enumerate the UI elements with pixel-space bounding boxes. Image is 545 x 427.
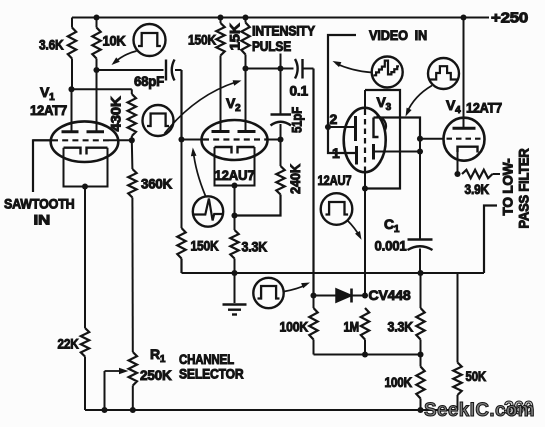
- wire V2 cathode down: [234, 186, 236, 216]
- V2 cathode left bracket: [215, 147, 232, 154]
- wire bottom rail: [85, 409, 458, 411]
- wire +250 supply rail: [72, 17, 464, 19]
- resistor 240K: [280, 140, 282, 167]
- svg-text:VIDEO IN: VIDEO IN: [369, 27, 427, 43]
- arrow from pulse icon to V3 grid wire: [348, 221, 360, 237]
- capacitor 51pF: [271, 113, 292, 115]
- V3 cathode top lead: [374, 118, 421, 139]
- waveform icon pulse bottom: [253, 278, 283, 308]
- svg-text:PASS FILTER: PASS FILTER: [516, 148, 532, 228]
- V2 plate right bar: [238, 130, 256, 133]
- svg-text:V2: V2: [226, 95, 241, 114]
- svg-text:PULSE: PULSE: [252, 38, 291, 54]
- V4 grid dashed: [447, 138, 482, 140]
- V4 cathode bracket: [458, 147, 478, 153]
- op-amp (vacuum tube) V4 12AT7 envelope: [444, 118, 485, 161]
- capacitor 68pF: [165, 60, 167, 81]
- waveform icon staircase video: [372, 57, 403, 88]
- svg-text:INTENSITY: INTENSITY: [252, 23, 316, 39]
- svg-text:150K: 150K: [191, 238, 219, 254]
- resistor 150K lower: [177, 228, 185, 259]
- wire video in lead: [328, 35, 356, 127]
- node 10K-bottom: [93, 67, 99, 73]
- resistor 150K plate load: [220, 18, 222, 24]
- wire sawtooth input lead: [33, 140, 51, 192]
- node pot-bottom: [130, 407, 136, 413]
- waveform icon pulse top-left: [134, 24, 166, 56]
- V3 pin2 lead: [328, 126, 354, 128]
- V3 plate bar bottom-right: [372, 144, 375, 160]
- wire 360K to pot: [131, 198, 133, 353]
- wire between right nodes: [419, 139, 421, 152]
- node V2 grid right: [277, 136, 283, 142]
- node intensity/0.1-cap: [277, 65, 283, 71]
- node pin2: [325, 124, 331, 130]
- V3 left box to lower plate: [328, 127, 355, 153]
- node 3.3K bottom: [417, 351, 423, 357]
- wire 3.6K-bottom to 430K top: [72, 88, 132, 90]
- node V2 cathode / 240K: [231, 212, 237, 218]
- svg-text:100K: 100K: [385, 374, 413, 390]
- svg-text:3.6K: 3.6K: [39, 37, 64, 53]
- V3 cathode top-right bar: [374, 118, 379, 138]
- arrow from spike icon to V2 grid node: [193, 151, 205, 197]
- resistor 50K: [457, 273, 459, 363]
- svg-text:1: 1: [332, 145, 340, 161]
- resistor 1M: [361, 308, 369, 340]
- potentiometer R1 250K: [129, 352, 137, 386]
- waveform icon pulse near C1: [321, 193, 353, 225]
- V1 cathode right bracket: [87, 148, 108, 155]
- svg-text:100K: 100K: [280, 319, 309, 335]
- resistor 100K bottom: [420, 355, 422, 367]
- arrow from bottom pulse icon to diode node: [284, 285, 307, 292]
- waveform icon staircase 2: [428, 58, 459, 89]
- waveform icon pulse mid-left: [143, 105, 174, 136]
- svg-text:SeekIC.com: SeekIC.com: [424, 400, 535, 421]
- resistor 3.6K: [71, 18, 73, 28]
- arrow from mid-left pulse icon to 15K bottom wire: [165, 82, 237, 134]
- svg-text:250K: 250K: [140, 367, 172, 383]
- op-amp (vacuum tube) V3 12AU7 envelope: [344, 108, 386, 172]
- node 100K-bottom-rail: [417, 407, 423, 413]
- V1 cathode box: [64, 148, 108, 187]
- wire V2 grid node down to 150K: [181, 140, 183, 229]
- V4 plate bar: [453, 127, 476, 130]
- resistor 22K: [81, 328, 89, 357]
- wire diode anode: [314, 295, 337, 297]
- svg-text:3.3K: 3.3K: [242, 239, 268, 255]
- resistor 360K: [131, 140, 134, 169]
- V2 plate left bar: [212, 130, 230, 133]
- svg-text:51pF: 51pF: [289, 106, 305, 133]
- svg-text:V1: V1: [40, 84, 55, 103]
- node V2 cathode junction: [231, 182, 237, 188]
- svg-text:430K: 430K: [108, 96, 124, 131]
- V1 plate right lead: [96, 70, 98, 132]
- capacitor C1 0.001: [408, 238, 433, 240]
- arrow from staircase icon to video line: [336, 64, 372, 73]
- node diode cathode junction: [362, 292, 368, 298]
- V4 plate lead: [463, 18, 465, 129]
- op-amp (vacuum tube) V1 12AT7 envelope: [51, 121, 119, 162]
- V3 plate bar top-left: [354, 116, 357, 141]
- node wiper-bottom: [101, 407, 107, 413]
- wire 0.1-node down to 51pF: [280, 69, 282, 115]
- svg-text:3.9K: 3.9K: [465, 181, 490, 197]
- svg-text:SAWTOOTH: SAWTOOTH: [4, 196, 75, 212]
- svg-text:CV448: CV448: [369, 287, 411, 303]
- capacitor 0.1: [295, 59, 298, 79]
- svg-text:2: 2: [330, 111, 338, 127]
- svg-text:SELECTOR: SELECTOR: [179, 366, 244, 382]
- node rail-V4: [460, 14, 466, 20]
- node V4 cathode / 3.9K: [454, 171, 460, 177]
- V1 cathode left bracket: [64, 148, 81, 155]
- wire V3 plate node down to C1: [419, 152, 421, 240]
- node 430K-bottom / V1 grid: [129, 137, 135, 143]
- resistor 100K left: [313, 296, 315, 309]
- wire long horizontal bus: [182, 272, 485, 274]
- svg-text:12AU7: 12AU7: [318, 172, 352, 188]
- resistor 3.3K mid: [234, 216, 236, 231]
- wire 10K-node to 68pF: [97, 69, 164, 71]
- wire mid bus: [314, 354, 421, 356]
- wire 68pF down to V2 grid node: [180, 70, 182, 140]
- wire 15K-node to 0.1 cap: [246, 68, 294, 70]
- resistor 15K: [245, 18, 247, 23]
- node diode anode junction: [310, 292, 316, 298]
- V2 cathode box: [215, 147, 255, 186]
- V1 plate left bar: [62, 130, 79, 133]
- wire 0.1 cap down to diode node: [312, 69, 314, 296]
- svg-text:IN: IN: [34, 212, 51, 228]
- resistor 430K: [131, 89, 133, 94]
- V1 plate left lead: [71, 89, 73, 132]
- node 15K bottom: [242, 65, 248, 71]
- svg-text:50K: 50K: [466, 368, 487, 384]
- svg-text:22K: 22K: [58, 336, 79, 352]
- V4 grid lead: [420, 138, 444, 140]
- resistor 3.3K right: [420, 273, 422, 308]
- svg-text:10K: 10K: [103, 33, 126, 49]
- op-amp (vacuum tube) V2 12AU7 envelope: [202, 120, 268, 160]
- node 1M bottom: [362, 351, 368, 357]
- arrow from pulse icon to 10K node wire: [115, 51, 137, 63]
- V3 feedback box: [365, 90, 400, 189]
- wire wiper down to bottom rail: [104, 371, 106, 410]
- svg-text:150K: 150K: [188, 32, 216, 48]
- svg-text:C1: C1: [384, 216, 400, 235]
- arrow from staircase icon 2 to V3 box: [407, 86, 432, 114]
- svg-text:V3: V3: [377, 94, 392, 113]
- node rail-15K: [242, 14, 248, 20]
- wire filter tap: [484, 206, 497, 274]
- svg-text:R1: R1: [150, 346, 166, 365]
- wire V1 cathode to 22K: [84, 187, 86, 329]
- V3 grid line dashed vertical: [364, 90, 366, 110]
- ground: [234, 273, 236, 303]
- svg-text:0.1: 0.1: [290, 83, 309, 99]
- node V2-grid-left: [178, 136, 184, 142]
- wire intensity pulse stub: [280, 54, 282, 69]
- pot wiper arrow: [105, 370, 120, 372]
- V1 plate right bar: [87, 130, 105, 133]
- node V3 plate / C1: [417, 148, 423, 154]
- V3 cathode curl: [377, 117, 386, 131]
- node C1 bus junction: [417, 270, 423, 276]
- wire V3 grid down to diode node: [364, 189, 366, 296]
- node rail-10K: [93, 14, 99, 20]
- V2 grid dashed line: [182, 139, 204, 141]
- node 3.3K-ground: [231, 270, 237, 276]
- node rail-150K: [217, 14, 223, 20]
- svg-text:15K: 15K: [227, 23, 243, 50]
- svg-text:0.001: 0.001: [375, 238, 407, 254]
- wire +250 stub: [464, 17, 490, 19]
- svg-text:1M: 1M: [344, 319, 360, 335]
- V2 cathode right bracket: [238, 147, 255, 154]
- resistor 3.9K: [462, 170, 493, 178]
- svg-text:12AU7: 12AU7: [215, 167, 255, 183]
- svg-text:3.3K: 3.3K: [388, 319, 414, 335]
- svg-text:360K: 360K: [141, 176, 172, 192]
- svg-text:12AT7: 12AT7: [466, 100, 502, 116]
- wire V4 cathode down: [457, 147, 459, 174]
- wire diode cathode: [352, 295, 366, 297]
- node V3 cathode / V4 grid: [417, 136, 423, 142]
- resistor 10K: [96, 18, 98, 28]
- waveform icon spike: [193, 196, 223, 226]
- node 3.6K-bottom: [68, 86, 74, 92]
- svg-text:12AT7: 12AT7: [30, 102, 67, 118]
- svg-text:68pF: 68pF: [134, 73, 165, 89]
- V3 plate bar bottom-left: [355, 146, 358, 165]
- diode CV448: [336, 289, 352, 302]
- svg-text:+250: +250: [491, 11, 528, 27]
- node V3 grid bottom: [362, 185, 368, 191]
- V3 bottom plate lead: [374, 151, 421, 153]
- svg-text:V4: V4: [446, 97, 461, 116]
- svg-text:TO LOW-: TO LOW-: [500, 158, 516, 216]
- svg-text:240K: 240K: [287, 164, 303, 194]
- node V1 cathode junction: [82, 183, 88, 189]
- V1 grid dashed line: [33, 139, 52, 141]
